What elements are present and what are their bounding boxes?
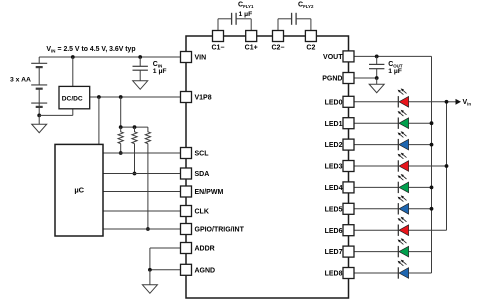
svg-text:LED3: LED3 (325, 164, 343, 171)
svg-text:1 µF: 1 µF (153, 68, 167, 75)
svg-text:V1P8: V1P8 (195, 95, 212, 102)
svg-text:VIN: VIN (195, 55, 207, 62)
svg-text:SCL: SCL (195, 151, 210, 158)
svg-text:LED8: LED8 (325, 271, 343, 278)
svg-text:ADDR: ADDR (195, 246, 215, 253)
svg-text:µC: µC (74, 186, 84, 195)
svg-text:CLK: CLK (195, 209, 209, 216)
svg-text:CFLY2: CFLY2 (298, 2, 314, 10)
svg-text:VOUT: VOUT (323, 54, 343, 61)
svg-text:PGND: PGND (322, 76, 342, 83)
svg-text:LED4: LED4 (325, 185, 343, 192)
svg-text:SDA: SDA (195, 171, 210, 178)
svg-text:LED1: LED1 (325, 121, 343, 128)
svg-text:LED0: LED0 (325, 99, 343, 106)
svg-text:C1+: C1+ (245, 45, 258, 52)
svg-text:3 x AA: 3 x AA (10, 77, 31, 84)
svg-text:EN/PWM: EN/PWM (195, 189, 224, 196)
svg-text:LED7: LED7 (325, 249, 343, 256)
svg-text:C2: C2 (306, 45, 315, 52)
svg-text:LED5: LED5 (325, 206, 343, 213)
svg-text:1 µF: 1 µF (388, 68, 402, 75)
svg-text:LED6: LED6 (325, 228, 343, 235)
svg-text:AGND: AGND (195, 267, 216, 274)
svg-text:GPIO/TRIG/INT: GPIO/TRIG/INT (195, 227, 245, 234)
svg-text:= 2.5 V to 4.5 V, 3.6V typ: = 2.5 V to 4.5 V, 3.6V typ (58, 46, 136, 53)
svg-text:VIN: VIN (46, 46, 55, 54)
svg-text:Vin: Vin (463, 99, 472, 107)
svg-text:1 µF: 1 µF (239, 11, 253, 18)
svg-text:LED2: LED2 (325, 142, 343, 149)
svg-text:DC/DC: DC/DC (62, 95, 83, 102)
svg-text:C1−: C1− (211, 45, 224, 52)
svg-text:CFLY1: CFLY1 (238, 2, 254, 10)
svg-text:C2−: C2− (271, 45, 284, 52)
